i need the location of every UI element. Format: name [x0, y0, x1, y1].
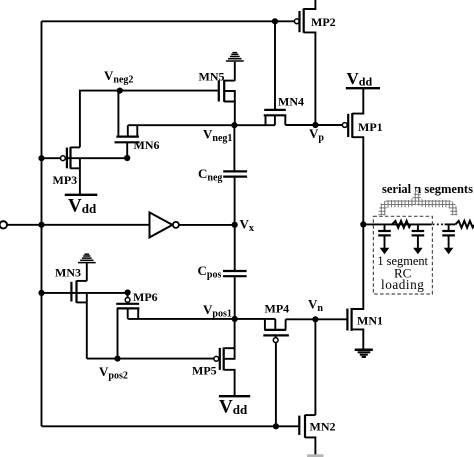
wire bottom row — [42, 425, 300, 427]
node RC load input (MP1/MN1 midpoint) — [360, 221, 366, 227]
resistor R2 (clipped at right edge) — [455, 221, 474, 228]
svg-text:MP5: MP5 — [192, 364, 217, 378]
transistor MN2 — [299, 415, 315, 456]
svg-text:serial n segments: serial n segments — [382, 182, 473, 196]
transistor MP6 — [116, 293, 139, 359]
wire V_pos1 row left part — [128, 318, 276, 320]
transistor MN3 — [71, 281, 86, 359]
wire gate row MP3/MN6 — [42, 157, 128, 159]
power supply pyramid above MN5 — [226, 53, 244, 61]
node rail / gate wire — [38, 155, 44, 161]
svg-text:MP6: MP6 — [133, 290, 158, 304]
svg-text:MP3: MP3 — [53, 173, 78, 187]
transistor MN4 — [264, 110, 287, 125]
wire V_pos1 row right part to MN1 gate — [286, 318, 348, 320]
wire dotted continuation — [433, 223, 445, 225]
node V_neg1 — [231, 122, 237, 128]
capacitor C_pos — [223, 225, 247, 319]
ground below MN1 — [355, 350, 373, 357]
node V_p — [312, 122, 318, 128]
power V_dd rail top for MP1 — [346, 69, 380, 89]
svg-text:MP4: MP4 — [265, 301, 290, 315]
svg-text:MN1: MN1 — [357, 314, 383, 328]
wire to second segment — [445, 223, 456, 225]
node rail / MN3 gate wire — [38, 290, 44, 296]
dashed box: 1 segment RC loading — [373, 216, 432, 294]
svg-text:loading: loading — [381, 277, 424, 292]
svg-text:MN5: MN5 — [199, 70, 225, 84]
node MP6 gate junction — [125, 289, 131, 295]
svg-text:MN3: MN3 — [55, 266, 81, 280]
wire V_neg1 row left part — [128, 124, 275, 126]
capacitor C3 with ground arrow — [442, 224, 455, 254]
wire MN4 gate vertical — [274, 21, 276, 110]
wire MN5 drain up to pyramid — [234, 62, 236, 81]
wire input to inverter — [7, 224, 150, 226]
node rail / input wire — [38, 222, 44, 228]
node MN6 gate junction — [124, 155, 130, 161]
capacitor C1 with ground arrow — [378, 224, 391, 254]
transistor MP3 — [61, 147, 80, 195]
wire V_neg1 row right part to MP1 — [285, 124, 342, 126]
input terminal — [0, 221, 7, 228]
wire MP4 gate vertical — [275, 343, 277, 427]
transistor MP2 — [294, 0, 315, 125]
node V_pos2 — [114, 356, 120, 362]
svg-text:MN4: MN4 — [278, 95, 304, 109]
svg-text:MN6: MN6 — [134, 138, 160, 152]
transistor MP5 — [214, 319, 235, 396]
wire V_pos2 row — [87, 358, 214, 360]
svg-text:MP1: MP1 — [358, 120, 383, 134]
gray rail stub below MN2 — [307, 454, 324, 457]
transistor MN1 — [347, 224, 363, 348]
svg-text:MN2: MN2 — [310, 420, 336, 434]
capacitor C2 with ground arrow — [412, 224, 425, 254]
node V_neg2 — [117, 88, 123, 94]
wire inverter output to V_x — [179, 224, 235, 226]
wire V_n vertical to MN2 — [314, 319, 316, 415]
wire V_neg2 down to MN6 — [117, 91, 119, 137]
wire V_neg2 row: MP3 drain up and across to MN5 gate — [80, 91, 219, 148]
wire top horizontal from left rail to MP2 gate — [42, 20, 295, 22]
power V_dd rail below MP3 — [65, 195, 98, 217]
transistor MN5 — [219, 80, 235, 125]
svg-text:MP2: MP2 — [311, 15, 336, 29]
transistor MN6 — [115, 125, 140, 158]
resistor R1 — [392, 221, 410, 228]
node bottom wire / MP4 gate — [273, 423, 279, 429]
node V_n — [312, 316, 318, 322]
node V_x — [232, 222, 238, 228]
wire left rail vertical — [41, 21, 43, 426]
power V_dd rail below MP5 — [219, 396, 250, 417]
power supply pyramid above MN3 — [78, 254, 96, 262]
node V_pos1 — [232, 316, 238, 322]
wire MN3 drain up to pyramid — [86, 263, 88, 281]
transistor MP4 — [263, 319, 289, 343]
node junction top wire / MN4 gate — [272, 18, 278, 24]
wire gate row MN3/MP6 — [42, 292, 128, 294]
capacitor C_neg — [223, 125, 247, 225]
transistor MP1 — [342, 88, 363, 224]
inverter U1 — [150, 212, 179, 237]
wire RC row inside dashed box — [363, 223, 432, 225]
